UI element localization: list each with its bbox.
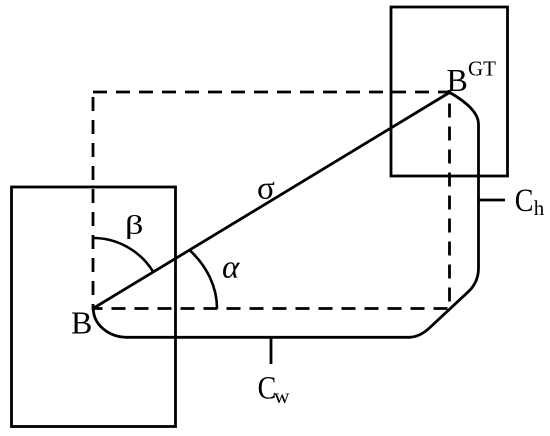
box B (predicted box, left solid rectangle)	[12, 187, 176, 427]
svg-text:w: w	[274, 384, 290, 408]
svg-text:σ: σ	[257, 171, 275, 207]
svg-text:GT: GT	[468, 56, 496, 80]
tick Ch	[479, 199, 506, 202]
tick Cw	[270, 338, 273, 365]
svg-text:C: C	[515, 183, 534, 219]
svg-text:h: h	[534, 196, 545, 220]
diagonal line sigma from B to BGT	[93, 93, 450, 309]
box BGT (ground-truth box, top-right solid rectangle)	[391, 7, 508, 176]
bracket path for Cw and Ch	[93, 93, 478, 338]
svg-text:B: B	[71, 304, 92, 340]
enclosing dashed box	[93, 92, 450, 309]
angle arc beta	[93, 238, 153, 272]
angle arc alpha	[190, 250, 218, 309]
svg-text:α: α	[222, 250, 240, 286]
svg-text:β: β	[125, 210, 144, 240]
svg-text:B: B	[447, 62, 468, 98]
